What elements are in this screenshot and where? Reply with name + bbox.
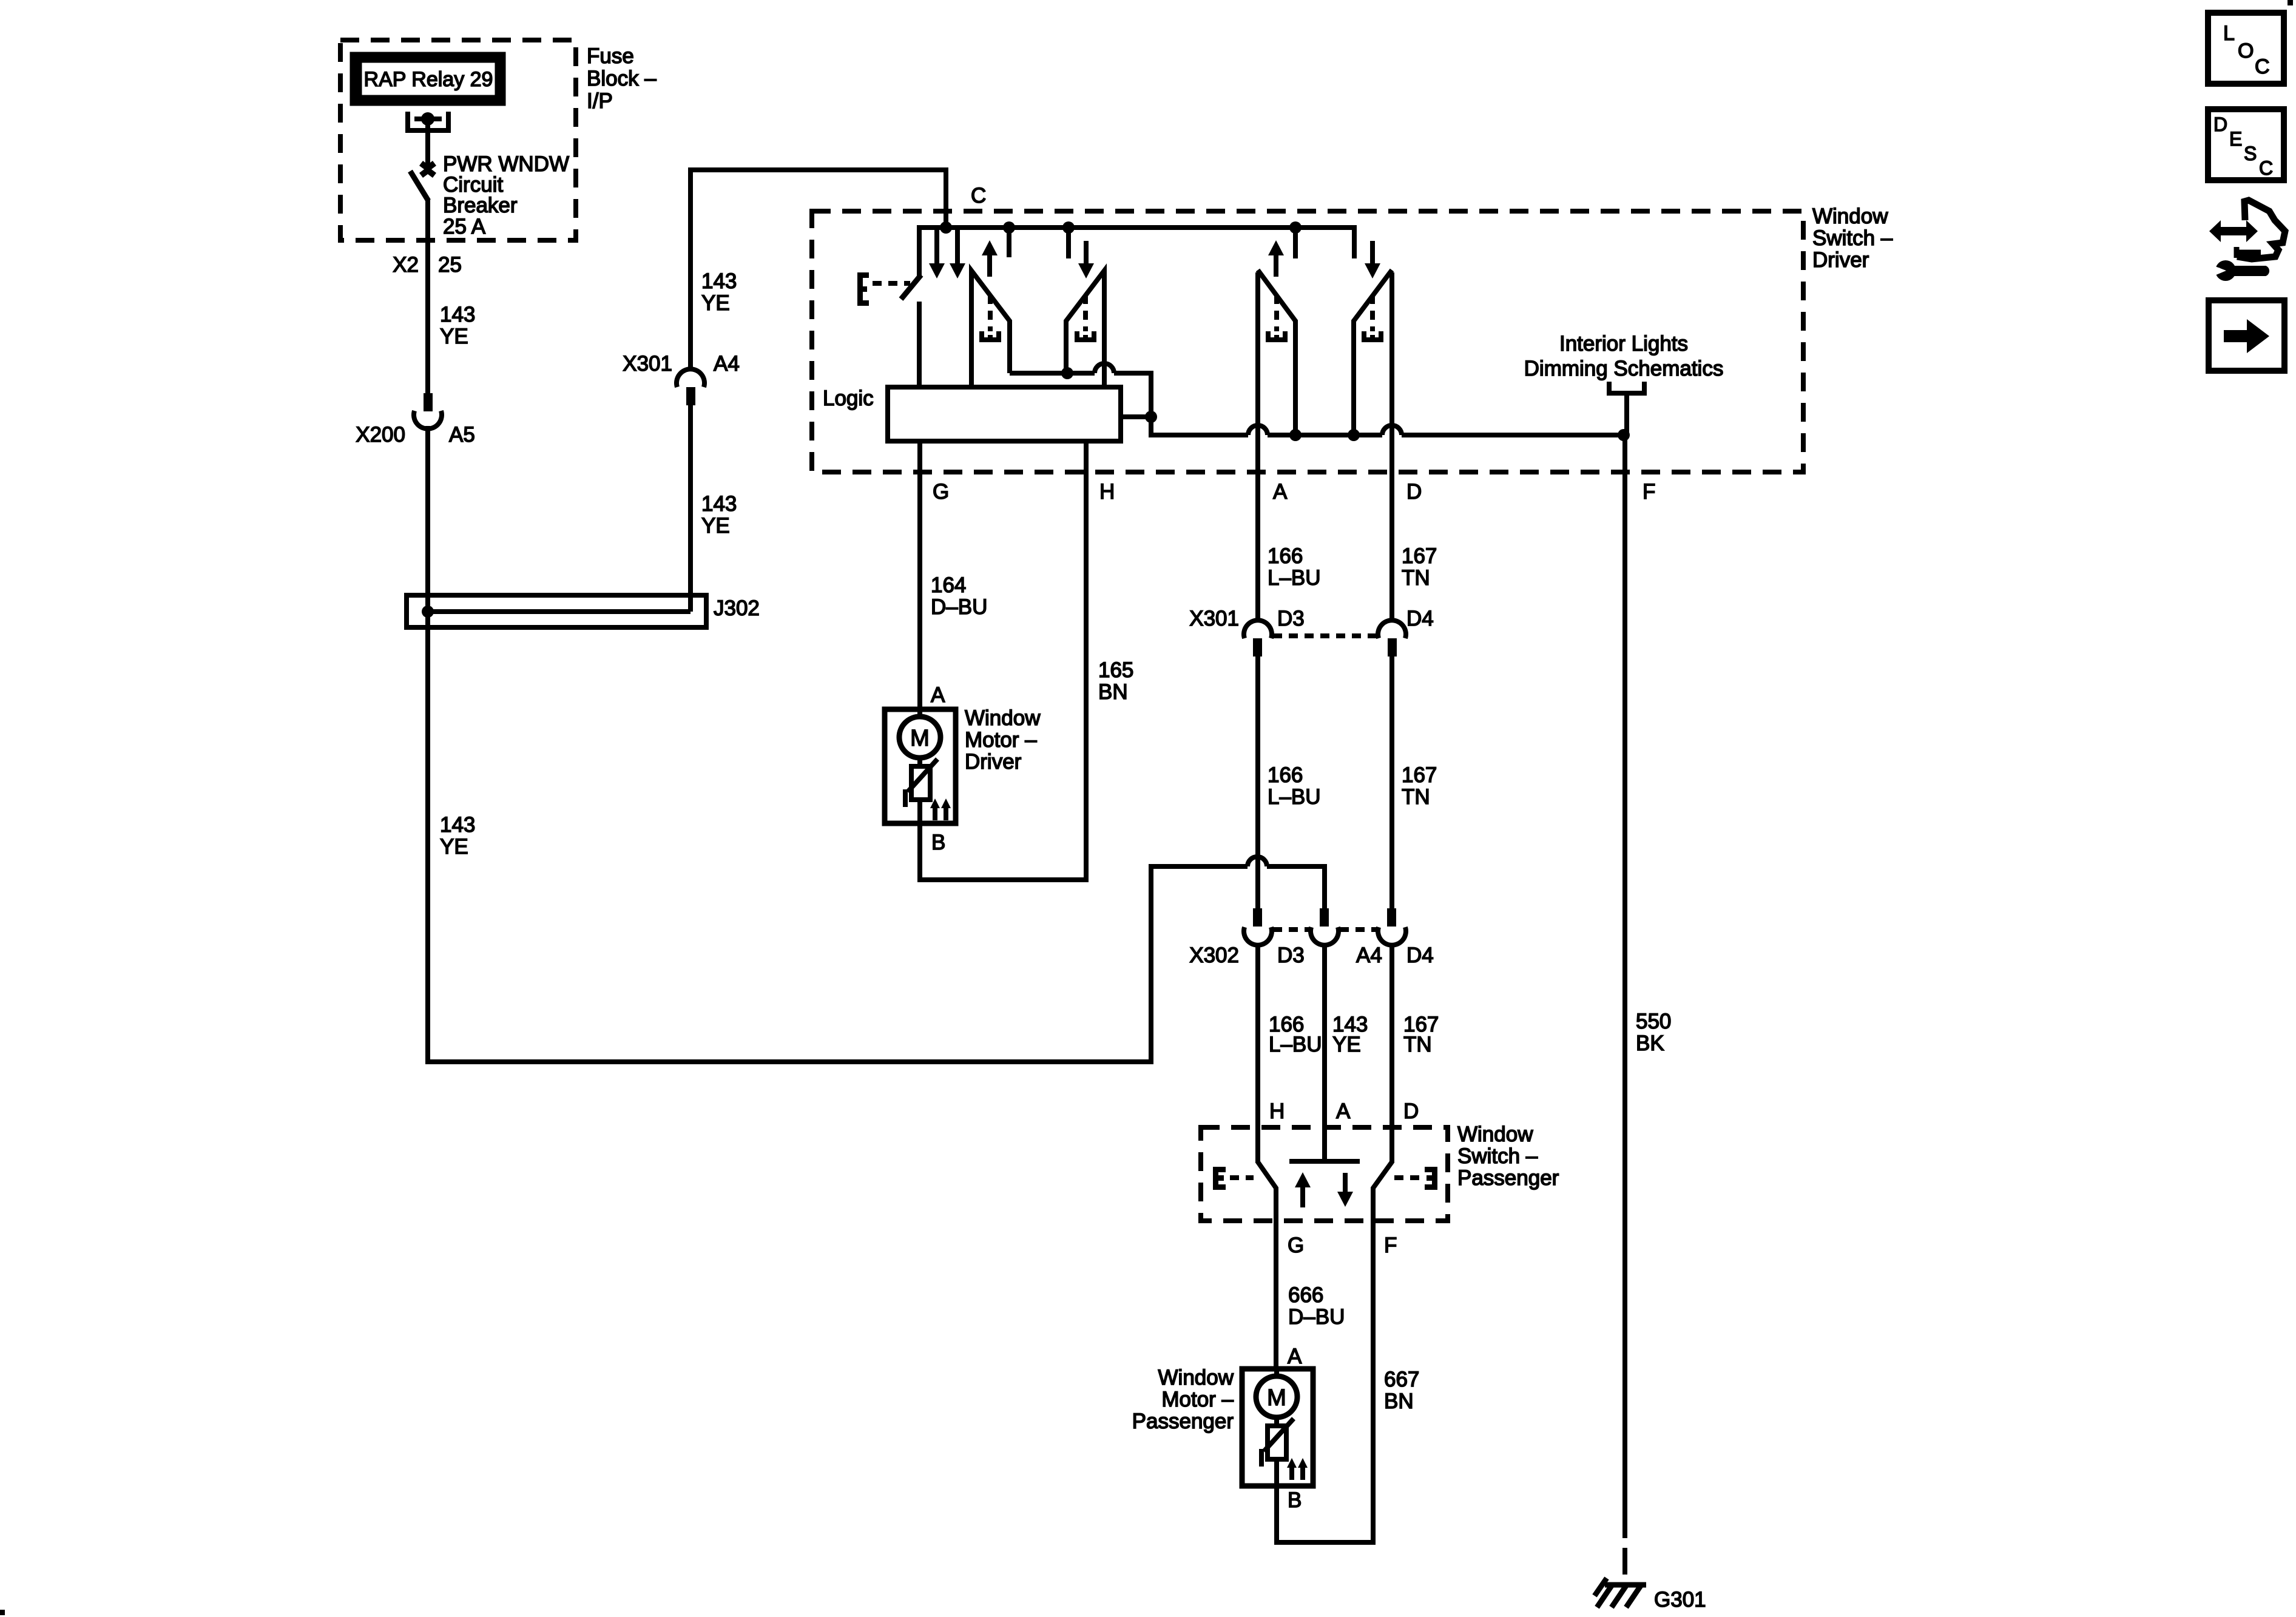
- arrow down 1: [929, 228, 945, 279]
- label 167 TN upper: [1402, 544, 1437, 590]
- icon hand with wrench: [2207, 200, 2285, 281]
- svg-text:RAP Relay 29: RAP Relay 29: [364, 68, 493, 91]
- svg-text:167: 167: [1402, 544, 1437, 568]
- svg-text:C: C: [971, 184, 986, 208]
- svg-text:L: L: [2223, 22, 2235, 45]
- svg-text:BK: BK: [1636, 1031, 1664, 1055]
- svg-text:TN: TN: [1402, 785, 1430, 809]
- label Window Motor - Driver: [965, 706, 1041, 774]
- svg-text:G: G: [933, 480, 949, 504]
- arrow down 2: [950, 228, 965, 279]
- contact sail G: [971, 271, 1010, 390]
- svg-text:O: O: [2238, 39, 2254, 62]
- wire 143 YE X302 A4 to passenger switch: [1322, 945, 1327, 1161]
- label Interior Lights Dimming Schematics: [1524, 332, 1724, 380]
- label 143 YE: [701, 492, 737, 538]
- dashed wire to ground: [1622, 1511, 1627, 1581]
- contact sail H: [1066, 271, 1104, 390]
- arrow down 4: [1365, 241, 1380, 279]
- svg-text:J302: J302: [714, 596, 760, 620]
- svg-text:X301: X301: [623, 352, 672, 376]
- wire hop over 166 wire: [1248, 857, 1267, 866]
- svg-text:L–BU: L–BU: [1269, 1033, 1322, 1056]
- connector X302 A4: [1311, 908, 1339, 945]
- logic module: [823, 387, 1121, 441]
- passenger switch blade D-F: [1373, 1162, 1392, 1221]
- svg-text:E: E: [2229, 128, 2242, 150]
- svg-text:Dimming Schematics: Dimming Schematics: [1524, 357, 1724, 380]
- interior lights bracket: [1609, 382, 1644, 436]
- circuit breaker PWR WNDW 25 A: [410, 152, 569, 238]
- label 166 L-BU upper: [1268, 544, 1321, 590]
- svg-text:Window: Window: [965, 706, 1041, 730]
- svg-text:D3: D3: [1277, 944, 1305, 967]
- svg-text:D3: D3: [1277, 607, 1305, 630]
- pin labels G H A D F: [933, 480, 1655, 504]
- svg-text:YE: YE: [1332, 1033, 1361, 1056]
- ground G301: [1595, 1578, 1706, 1612]
- wire 666 D-BU to passenger motor: [1274, 1221, 1278, 1371]
- svg-text:A: A: [1288, 1345, 1302, 1368]
- svg-text:A4: A4: [714, 352, 740, 376]
- svg-text:BN: BN: [1384, 1389, 1414, 1413]
- arrow up 1: [982, 240, 998, 277]
- passenger arrow down: [1337, 1173, 1353, 1207]
- page speck bottom-left: [0, 1610, 5, 1615]
- svg-text:D4: D4: [1406, 944, 1434, 967]
- label 143 YE: [440, 303, 475, 348]
- svg-text:I/P: I/P: [587, 89, 613, 113]
- svg-text:M: M: [910, 726, 930, 751]
- label Window Motor - Passenger: [1132, 1366, 1234, 1433]
- switch blade E: [857, 272, 921, 390]
- svg-text:M: M: [1267, 1385, 1286, 1411]
- svg-text:A: A: [1273, 480, 1288, 504]
- window motor driver: [885, 709, 956, 823]
- svg-text:666: 666: [1288, 1283, 1323, 1307]
- wire 143 YE J302 up to X301 A4: [688, 595, 693, 612]
- svg-text:Window: Window: [1457, 1122, 1533, 1146]
- passenger switch common bar A: [1289, 1159, 1360, 1164]
- label 143 YE: [440, 813, 475, 859]
- svg-text:143: 143: [440, 813, 475, 837]
- arrow up 2: [1268, 240, 1284, 277]
- label 667 BN: [1384, 1368, 1419, 1413]
- svg-text:667: 667: [1384, 1368, 1419, 1391]
- connector X302 D4: [1378, 908, 1406, 945]
- labels X301 D3 D4: [1189, 607, 1434, 630]
- bus stub 2: [1062, 221, 1075, 258]
- window switch driver dashed box: [812, 211, 1803, 472]
- icon arrow box: [2209, 300, 2284, 371]
- svg-text:B: B: [1288, 1488, 1302, 1512]
- svg-text:D–BU: D–BU: [931, 595, 987, 619]
- pin labels H A D passenger: [1269, 1099, 1419, 1123]
- svg-text:H: H: [1269, 1099, 1285, 1123]
- svg-text:Driver: Driver: [1812, 248, 1869, 272]
- bus stub 1: [1003, 221, 1015, 257]
- fuse block dashed box: [340, 40, 576, 240]
- wire 167 TN X302 to passenger switch: [1389, 945, 1394, 1163]
- svg-text:Breaker: Breaker: [443, 194, 518, 217]
- svg-text:164: 164: [931, 573, 966, 597]
- wire 143 YE X200 to J302: [425, 426, 430, 614]
- page speck top-right: [2288, 0, 2293, 5]
- contact sail A: [1258, 270, 1295, 623]
- wire 143 YE J302 down right up to X302 A4: [428, 614, 1248, 1062]
- svg-text:X200: X200: [356, 423, 405, 447]
- label Window Switch - Driver: [1812, 204, 1893, 272]
- svg-text:D4: D4: [1406, 607, 1434, 630]
- svg-text:A4: A4: [1356, 944, 1382, 967]
- svg-text:143: 143: [701, 492, 737, 516]
- label 164 D-BU: [931, 573, 987, 619]
- svg-text:YE: YE: [701, 514, 730, 538]
- svg-text:S: S: [2244, 143, 2257, 164]
- svg-text:165: 165: [1098, 658, 1133, 682]
- svg-text:TN: TN: [1403, 1033, 1432, 1056]
- X301 row dashed link: [1273, 633, 1377, 638]
- svg-text:Window: Window: [1158, 1366, 1234, 1389]
- svg-text:X2: X2: [393, 253, 419, 277]
- connector X302 D3: [1244, 908, 1272, 945]
- window switch passenger dashed box: [1201, 1127, 1448, 1221]
- wire 143 YE breaker to X200: [425, 199, 430, 395]
- X302 row dashed links: [1273, 927, 1377, 932]
- wire relay to breaker: [425, 119, 430, 165]
- svg-text:G: G: [1288, 1234, 1304, 1257]
- node C junction: [940, 221, 952, 234]
- splice J302: [407, 595, 760, 627]
- icon DESC box: [2208, 109, 2284, 180]
- passenger E bracket right: [1394, 1167, 1437, 1190]
- bus stub 3: [1289, 221, 1302, 258]
- svg-text:C: C: [2259, 157, 2273, 179]
- label 550 BK: [1636, 1010, 1671, 1055]
- wire 164 D-BU pin G to motor: [917, 441, 922, 711]
- relay contact bracket: [408, 112, 448, 130]
- labels X302 D3 A4 D4: [1189, 944, 1434, 967]
- label 143 YE: [701, 269, 737, 315]
- icon LOC box: [2208, 13, 2284, 84]
- svg-text:Block –: Block –: [587, 67, 657, 90]
- label Fuse Block - I/P: [587, 44, 657, 113]
- svg-text:166: 166: [1268, 763, 1303, 787]
- connector X301 A4: [623, 352, 740, 405]
- svg-text:Motor –: Motor –: [965, 728, 1037, 752]
- svg-text:F: F: [1643, 480, 1655, 504]
- label 167 TN lower: [1403, 1013, 1439, 1056]
- svg-text:F: F: [1384, 1234, 1397, 1257]
- svg-text:25: 25: [438, 253, 462, 277]
- svg-text:C: C: [2255, 55, 2270, 78]
- svg-text:X302: X302: [1189, 944, 1239, 967]
- svg-text:Motor –: Motor –: [1161, 1388, 1234, 1411]
- passenger arrow up: [1295, 1172, 1311, 1207]
- RAP Relay 29: [354, 56, 501, 101]
- svg-text:A5: A5: [449, 423, 475, 447]
- svg-text:167: 167: [1402, 763, 1437, 787]
- wire 165 BN pin H to motor loop: [920, 441, 1086, 880]
- svg-text:143: 143: [440, 303, 475, 326]
- connector X301 D4: [1378, 620, 1406, 657]
- svg-text:Fuse: Fuse: [587, 44, 634, 68]
- label 666 D-BU: [1288, 1283, 1345, 1329]
- wire 550 BK: [1622, 436, 1627, 1511]
- svg-text:YE: YE: [440, 325, 468, 348]
- arrow down 3: [1078, 241, 1094, 279]
- svg-text:G301: G301: [1654, 1588, 1706, 1612]
- bus wire C: [919, 228, 1354, 276]
- svg-text:25 A: 25 A: [443, 215, 486, 238]
- wire 166 L-BU X302 to passenger switch: [1255, 945, 1260, 1163]
- wire 166 L-BU X301 to X302: [1255, 657, 1260, 908]
- svg-text:Driver: Driver: [965, 750, 1022, 774]
- pin labels G F passenger: [1288, 1234, 1397, 1257]
- svg-text:A: A: [1336, 1099, 1351, 1123]
- label X2 25: [393, 253, 462, 277]
- svg-text:Logic: Logic: [823, 387, 874, 410]
- wire 167 TN X301 to X302: [1389, 657, 1394, 908]
- label 167 TN middle: [1402, 763, 1437, 809]
- svg-text:D: D: [2213, 113, 2227, 135]
- svg-text:Switch –: Switch –: [1457, 1144, 1538, 1168]
- window motor passenger: [1242, 1369, 1313, 1486]
- svg-text:X301: X301: [1189, 607, 1239, 630]
- svg-text:143: 143: [701, 269, 737, 293]
- wire 143 YE X301 A4 up and to C: [690, 170, 946, 371]
- svg-text:YE: YE: [440, 835, 468, 859]
- contact sail D: [1354, 270, 1392, 623]
- label 165 BN: [1098, 658, 1133, 704]
- svg-text:TN: TN: [1402, 566, 1430, 590]
- svg-text:Passenger: Passenger: [1457, 1166, 1559, 1190]
- svg-text:D: D: [1406, 480, 1422, 504]
- passenger switch blade H-G: [1258, 1162, 1276, 1221]
- svg-text:D: D: [1403, 1099, 1419, 1123]
- svg-text:A: A: [931, 683, 945, 707]
- svg-text:H: H: [1099, 480, 1115, 504]
- wire sail outputs to logic: [1010, 363, 1151, 417]
- wire 667 BN pin F to motor loop: [1277, 1221, 1373, 1542]
- svg-text:Interior Lights: Interior Lights: [1559, 332, 1688, 356]
- label 166 L-BU lower: [1269, 1013, 1322, 1056]
- svg-text:D–BU: D–BU: [1288, 1305, 1345, 1329]
- label Window Switch - Passenger: [1457, 1122, 1559, 1190]
- svg-text:B: B: [931, 831, 945, 854]
- svg-text:550: 550: [1636, 1010, 1671, 1033]
- wire logic to distribution: [1121, 411, 1630, 441]
- svg-text:L–BU: L–BU: [1268, 785, 1321, 809]
- connector X301 D3: [1244, 620, 1272, 657]
- svg-text:L–BU: L–BU: [1268, 566, 1321, 590]
- svg-text:Switch –: Switch –: [1812, 226, 1893, 250]
- svg-text:YE: YE: [701, 291, 730, 315]
- svg-text:Window: Window: [1812, 204, 1888, 228]
- label 166 L-BU middle: [1268, 763, 1321, 809]
- label 143 YE lower: [1332, 1013, 1368, 1056]
- svg-text:BN: BN: [1098, 680, 1128, 704]
- connector X200 A5: [356, 393, 475, 447]
- svg-text:166: 166: [1268, 544, 1303, 568]
- svg-text:Passenger: Passenger: [1132, 1409, 1234, 1433]
- passenger E bracket left: [1213, 1167, 1254, 1190]
